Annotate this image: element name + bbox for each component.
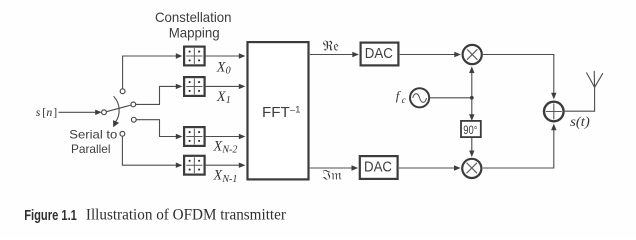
svg-text:XN-2: XN-2	[213, 138, 238, 155]
svg-text:Figure 1.1: Figure 1.1	[24, 208, 77, 224]
svg-text:DAC: DAC	[365, 46, 393, 62]
svg-text:s: s	[36, 105, 41, 119]
svg-text:Mapping: Mapping	[169, 26, 220, 41]
svg-text:X0: X0	[216, 59, 231, 76]
svg-text:X1: X1	[216, 89, 231, 106]
svg-text:90°: 90°	[463, 123, 477, 137]
svg-text:Constellation: Constellation	[155, 10, 232, 25]
svg-text:]: ]	[53, 105, 57, 119]
svg-text:c: c	[402, 96, 407, 106]
svg-text:Serial to: Serial to	[69, 128, 117, 142]
svg-text:n: n	[46, 105, 52, 119]
svg-text:XN-1: XN-1	[213, 168, 238, 185]
svg-text:Illustration of OFDM transmitt: Illustration of OFDM transmitter	[86, 207, 286, 224]
svg-text:Parallel: Parallel	[71, 142, 111, 156]
svg-text:DAC: DAC	[364, 160, 392, 176]
svg-text:s(t): s(t)	[570, 114, 590, 129]
